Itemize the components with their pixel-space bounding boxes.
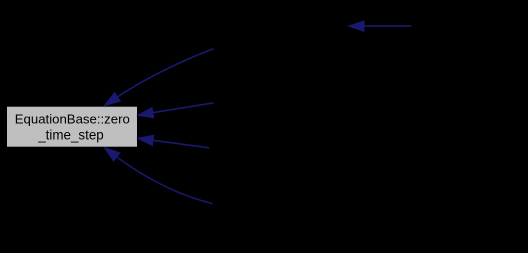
edge: top-right horizontal arrow (caller of hidden node) xyxy=(349,21,412,31)
node: EquationBase::zero_time_step (grey box) xyxy=(7,106,138,147)
svg-text:EquationBase::zero: EquationBase::zero xyxy=(15,111,130,126)
svg-text:_time_step: _time_step xyxy=(37,127,104,142)
edge: caller arrow 1 (curved, from upper right into box top) xyxy=(105,49,214,106)
edge: caller arrow 3 (straight, into box right edge lower) xyxy=(138,135,210,148)
edge: caller arrow 2 (straight, into box right edge upper) xyxy=(138,103,214,118)
edge: caller arrow 4 (curved, from lower right into box bottom) xyxy=(104,148,212,204)
